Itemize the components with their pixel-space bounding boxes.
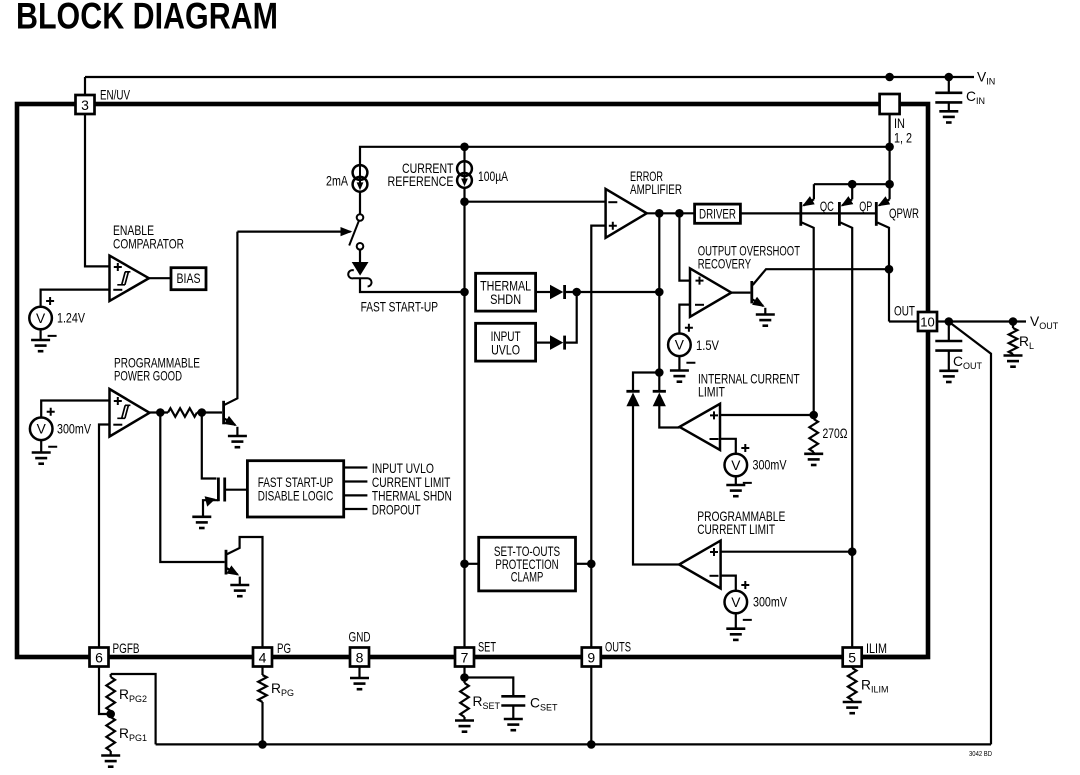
ground M1 source: [192, 517, 211, 528]
svg-text:CURRENT LIMIT: CURRENT LIMIT: [372, 475, 451, 490]
IC boundary outline: [17, 104, 928, 657]
ground 270ohm: [804, 454, 823, 465]
wire RPG2 top to VOUT rail: [111, 674, 156, 744]
diode input uvlo: [536, 342, 550, 344]
current source 2mA: [353, 165, 368, 192]
wire comparator output to BIAS: [149, 277, 171, 279]
node QPWR emitter / IN: [885, 180, 894, 189]
resistor RILIM: [851, 667, 853, 669]
svg-text:DISABLE LOGIC: DISABLE LOGIC: [258, 488, 334, 503]
wire diode top connector: [633, 373, 659, 392]
box BIAS: [171, 268, 206, 290]
svg-text:CLAMP: CLAMP: [511, 570, 544, 585]
wire PG output node down to Q2 base: [160, 413, 224, 563]
wire clamp right stub: [576, 563, 592, 565]
ground RILIM: [843, 702, 862, 713]
wire pin3 to enable comparator: [85, 114, 110, 266]
node PG comparator output: [156, 408, 165, 417]
transistor Q2 NPN: [225, 550, 228, 575]
wire VOUT bottom rail: [156, 743, 991, 745]
svg-text:270Ω: 270Ω: [823, 426, 848, 441]
wire resistor to Q1 base: [197, 411, 222, 413]
ground COUT: [939, 371, 958, 382]
wire pin3 top stub: [84, 77, 86, 95]
ground CIN: [939, 111, 958, 122]
wire QPWR collector to OUT pin: [889, 320, 918, 322]
svg-text:DROPOUT: DROPOUT: [372, 502, 421, 517]
resistor RL: [1012, 322, 1014, 329]
svg-text:1.5V: 1.5V: [696, 338, 720, 353]
svg-text:6: 6: [95, 649, 103, 665]
svg-text:100µA: 100µA: [478, 169, 509, 184]
node clamp stub right: [587, 560, 596, 569]
svg-text:300mV: 300mV: [753, 458, 788, 473]
wire EA plus input from OUTS: [591, 226, 605, 648]
transistor M1 PMOS: [217, 478, 220, 502]
resistor RPG1: [106, 717, 115, 751]
pin 5 box ILIM: [843, 648, 862, 667]
svg-text:DRIVER: DRIVER: [699, 206, 736, 221]
svg-text:ILIM: ILIM: [866, 641, 887, 656]
transistor Q3 NPN: [750, 281, 753, 303]
resistor RSET: [460, 683, 469, 717]
node VIN junction at IN: [885, 73, 894, 82]
svg-text:10: 10: [920, 314, 934, 329]
ground Q1 emitter: [228, 436, 247, 447]
node rail at IN: [885, 143, 894, 152]
svg-text:BLOCK DIAGRAM: BLOCK DIAGRAM: [16, 0, 278, 37]
wire ICL minus to 300mV: [720, 439, 736, 454]
node EA output: [655, 209, 664, 218]
svg-text:300mV: 300mV: [753, 595, 788, 610]
wire OOR minus to 1.5V: [679, 305, 690, 334]
box INPUT UVLO: [476, 323, 536, 361]
svg-text:COMPARATOR: COMPARATOR: [113, 236, 184, 251]
capacitor COUT: [948, 322, 950, 341]
svg-text:QPWR: QPWR: [889, 206, 919, 221]
pin 4 box PG: [253, 648, 272, 667]
wire 2mA to switch: [359, 192, 361, 214]
transistor QPWR PNP: [875, 202, 878, 226]
ground RPG1: [101, 756, 120, 767]
node Q1 base: [198, 408, 207, 417]
wire current source rail: [360, 147, 890, 165]
wire pin6 to divider: [99, 667, 111, 715]
svg-text:9: 9: [587, 649, 595, 665]
op-amp output overshoot recovery: [690, 268, 731, 316]
node switch joins SET line: [460, 288, 469, 297]
pin 9 box OUTS: [582, 648, 601, 667]
node PCL sense at ILIM: [848, 547, 857, 556]
pin IN box: [880, 94, 900, 114]
svg-text:UVLO: UVLO: [491, 343, 520, 358]
svg-text:3042 BD: 3042 BD: [969, 749, 992, 758]
svg-text:OUTS: OUTS: [605, 640, 631, 655]
svg-text:IN: IN: [894, 116, 905, 131]
resistor 270ohm: [809, 419, 818, 452]
node VIN junction at CIN: [945, 73, 954, 82]
svg-text:INPUT UVLO: INPUT UVLO: [372, 461, 434, 476]
ground RL: [1004, 356, 1023, 367]
ground CSET: [504, 719, 523, 730]
op-amp internal current limit: [680, 404, 721, 450]
svg-text:2mA: 2mA: [326, 173, 349, 188]
svg-text:POWER GOOD: POWER GOOD: [114, 369, 182, 384]
wire driver base line: [740, 212, 876, 214]
svg-text:RECOVERY: RECOVERY: [698, 257, 751, 272]
svg-text:CURRENT LIMIT: CURRENT LIMIT: [697, 522, 775, 537]
clamp symbol fast start-up: [359, 250, 361, 262]
wire minus input to PGFB pin 6: [99, 425, 110, 648]
svg-text:PG: PG: [277, 641, 291, 656]
current source 100uA: [463, 147, 465, 161]
voltage source 300mV programmable limit: [725, 581, 752, 620]
svg-text:EN/UV: EN/UV: [100, 88, 131, 103]
svg-text:QP: QP: [859, 199, 872, 214]
wire 100uA down SET line: [463, 188, 465, 648]
wire IN pin down to emitter rail: [888, 114, 890, 184]
box FAST START-UP DISABLE LOGIC: [247, 461, 343, 517]
svg-text:BIAS: BIAS: [177, 271, 201, 286]
wire EA minus input: [465, 201, 606, 203]
box SET-TO-OUTS PROTECTION CLAMP: [479, 537, 576, 591]
wire ICL plus input: [720, 414, 814, 416]
transistor Q1 NPN: [222, 401, 225, 425]
pin 8 box GND: [350, 648, 369, 667]
wire comparator output: [150, 411, 169, 413]
switch fast start-up: [357, 214, 364, 221]
wire EA output down to diodes: [658, 213, 660, 391]
resistor RPG2: [110, 674, 112, 677]
wire VIN rail: [85, 76, 974, 78]
node rail at 100uA: [460, 143, 469, 152]
svg-text:5: 5: [848, 649, 856, 665]
wire PCL minus to 300mV: [721, 576, 736, 591]
wire VOUT line: [937, 320, 1026, 322]
wire pin9 to VOUT rail: [590, 667, 592, 745]
node OUTS bottom: [587, 740, 596, 749]
ground Q2 emitter: [230, 585, 249, 596]
svg-text:GND: GND: [349, 629, 371, 644]
ground 1.24V: [31, 340, 50, 351]
svg-text:AMPLIFIER: AMPLIFIER: [630, 182, 682, 197]
node VOUT at COUT: [945, 317, 954, 326]
wire 1.24V to minus input: [41, 290, 110, 307]
wire VOUT feedback down right side: [950, 322, 992, 744]
wire emitter rail: [814, 183, 890, 185]
wire PCL plus input: [721, 551, 853, 553]
op-amp power good comparator: [110, 389, 150, 437]
ground RSET: [455, 721, 474, 732]
svg-text:PGFB: PGFB: [113, 641, 140, 656]
wire left diode to PCL output: [633, 406, 679, 565]
svg-text:7: 7: [461, 649, 469, 665]
wire OOR plus input: [679, 213, 690, 280]
node ICL sense: [809, 411, 818, 420]
pin 7 box SET: [455, 648, 474, 667]
transistor QP PNP: [838, 202, 841, 226]
svg-text:SET: SET: [478, 639, 496, 654]
svg-text:SHDN: SHDN: [490, 292, 521, 307]
diode thermal shdn: [536, 291, 550, 293]
capacitor CSET: [465, 678, 514, 696]
svg-text:8: 8: [356, 649, 364, 665]
svg-text:3: 3: [81, 97, 89, 113]
op-amp enable comparator: [110, 256, 149, 301]
ground Q3 emitter: [756, 315, 775, 326]
op-amp error amplifier: [606, 189, 647, 238]
svg-text:300mV: 300mV: [57, 421, 92, 436]
capacitor CIN: [948, 77, 950, 92]
node RPG2 RPG1 junction: [106, 710, 115, 719]
resistor RPG: [261, 667, 263, 676]
resistor base drive: [168, 408, 197, 417]
box THERMAL SHDN: [476, 273, 536, 311]
svg-text:4: 4: [259, 649, 267, 665]
node RPG bottom: [258, 740, 267, 749]
transistor QC PNP: [799, 202, 802, 226]
node driver node to OOR: [675, 209, 684, 218]
node QP emitter: [848, 180, 857, 189]
pin 10 box: [918, 312, 937, 331]
node thermal diode junction: [655, 288, 664, 297]
diode left (programmable limit): [626, 391, 639, 406]
node diode top junction: [655, 368, 664, 377]
pin 6 box PGFB: [90, 648, 109, 667]
ground 1.5V: [670, 371, 689, 382]
node VOUT at RL: [1009, 317, 1018, 326]
wire pin7 junction: [463, 667, 465, 684]
wire Q1 base node to M1 drain: [202, 413, 217, 479]
voltage source 300mV internal limit: [725, 444, 752, 483]
wire EA output to DRIVER: [647, 212, 695, 214]
svg-text:1.24V: 1.24V: [57, 311, 86, 326]
ground 300mV programmable limit: [726, 629, 745, 640]
svg-text:REFERENCE: REFERENCE: [388, 174, 454, 189]
ground pin 8: [358, 667, 360, 679]
node clamp stub left: [460, 560, 469, 569]
svg-text:QC: QC: [820, 199, 834, 214]
pin 3 box: [76, 95, 95, 114]
wire 300mV to plus input: [41, 401, 109, 418]
wire right diode to ICL output: [659, 406, 679, 428]
box DRIVER: [695, 204, 741, 223]
ground 300mV power good: [32, 453, 51, 464]
svg-text:FAST START-UP: FAST START-UP: [361, 299, 438, 314]
wire clamp left stub: [465, 563, 479, 565]
node QPWR collector / OOR: [885, 265, 894, 274]
wire switch control arrow: [237, 231, 350, 233]
node diode OR junction: [572, 288, 581, 297]
wire clamp to SET line: [360, 278, 462, 292]
wire OOR output to Q3 base: [731, 292, 750, 294]
voltage source 1.5V: [668, 324, 695, 363]
voltage source 300mV power good: [30, 408, 57, 447]
wire ILIM to border (thick): [862, 655, 926, 660]
svg-text:1, 2: 1, 2: [894, 130, 912, 145]
svg-text:OUT: OUT: [894, 304, 915, 319]
op-amp programmable current limit: [679, 541, 721, 589]
voltage source 1.24V: [29, 297, 56, 336]
node error amp minus takeoff: [460, 197, 469, 206]
wire logic inputs: [344, 468, 368, 510]
ground 300mV internal limit: [726, 485, 745, 496]
diode right (internal limit): [653, 391, 666, 406]
svg-text:LIMIT: LIMIT: [698, 385, 725, 400]
